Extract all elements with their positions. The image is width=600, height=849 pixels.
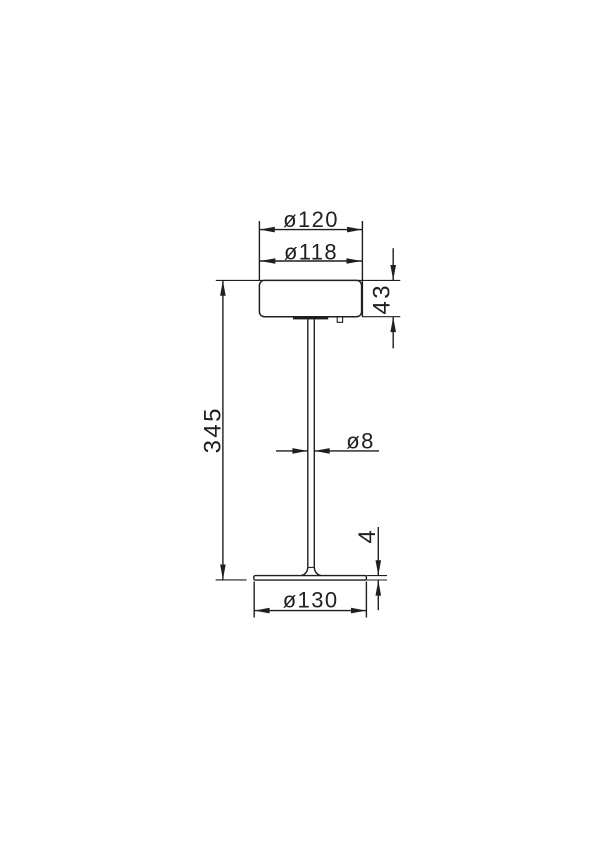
extension line head top (y=280.4 running left to 345 dim and right to 43 dim) xyxy=(216,279,400,281)
svg-text:ø8: ø8 xyxy=(346,429,374,454)
lamp head body xyxy=(259,280,361,316)
dimension ø130 left arrow xyxy=(254,608,269,614)
dimension ø118 text xyxy=(284,239,338,264)
dimension 4 upper arrow (points down) xyxy=(376,560,382,575)
dimension ø130 text xyxy=(283,587,339,612)
extension line left (head ø120/ø118) xyxy=(258,221,260,280)
dimension 345 line xyxy=(222,280,224,580)
dimension ø130 line xyxy=(254,610,366,612)
extension line base right (ø130) xyxy=(365,582,367,618)
lamp base plate xyxy=(254,576,367,581)
dimension 4 lower line xyxy=(377,580,379,610)
dimension ø120 left arrow xyxy=(260,227,275,233)
dimension 43 lower arrow (points up) xyxy=(390,317,396,332)
dimension 345 top arrow xyxy=(220,281,226,296)
dimension ø120 text xyxy=(283,207,339,232)
stem foot flare right xyxy=(314,567,321,575)
dimension ø8 right arrow (points left) xyxy=(315,448,330,454)
stem right edge xyxy=(313,319,315,567)
dimension 4 lower arrow (points up) xyxy=(376,580,382,595)
extension line base top right (4 dim) xyxy=(367,575,387,577)
switch button xyxy=(337,317,342,322)
lamp socket bar (filled) xyxy=(293,316,328,319)
dimension ø120 line xyxy=(259,229,362,231)
dimension 4 upper line xyxy=(377,527,379,576)
dimension 43 upper arrow (points down) xyxy=(390,265,396,280)
dimension 43 text (rotated) xyxy=(369,283,396,315)
dimension ø120 right arrow xyxy=(347,227,362,233)
dimension 4 text (rotated) xyxy=(354,528,381,544)
stem left edge xyxy=(307,319,309,567)
dimension ø8 right arm xyxy=(314,450,379,452)
stem foot flare left xyxy=(301,567,308,575)
dimension 43 upper line xyxy=(392,248,394,280)
dimension 345 bottom arrow xyxy=(220,565,226,580)
dimension ø118 left arrow xyxy=(260,258,275,264)
extension line base left (ø130) xyxy=(253,582,255,618)
dimension 345 text (rotated) xyxy=(200,406,227,453)
stem joint line xyxy=(308,566,315,568)
extension line right (head ø120/ø118) xyxy=(361,221,363,317)
svg-text:ø118: ø118 xyxy=(284,239,338,264)
svg-text:ø130: ø130 xyxy=(283,587,339,612)
dimension ø8 text xyxy=(346,429,374,454)
extension line base bottom right (4 dim) xyxy=(367,579,387,581)
svg-text:ø120: ø120 xyxy=(283,207,339,232)
dimension ø130 right arrow xyxy=(351,608,366,614)
dimension ø118 right arrow xyxy=(347,258,362,264)
dimension ø8 left arrow (points right) xyxy=(292,448,307,454)
extension line base bottom left (345 dim) xyxy=(216,579,247,581)
svg-text:43: 43 xyxy=(369,283,396,315)
dimension ø8 left arm xyxy=(276,450,308,452)
svg-text:4: 4 xyxy=(354,528,381,544)
extension line head bottom right (43 dim) xyxy=(362,316,400,318)
dimension ø118 line xyxy=(260,260,362,262)
dimension 43 lower line xyxy=(392,317,394,349)
svg-text:345: 345 xyxy=(200,406,227,453)
